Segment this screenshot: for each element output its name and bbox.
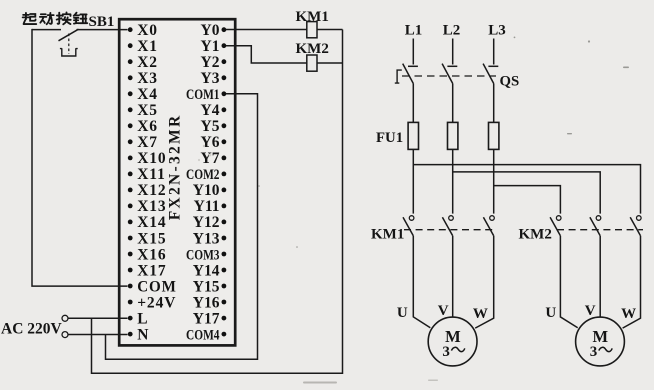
wire: M2 V lead (599, 236, 601, 317)
svg-text:Y2: Y2 (201, 54, 220, 71)
output pin Y1 (201, 38, 227, 55)
KM1 pole 2 terminal circle (449, 216, 454, 221)
terminal L (62, 315, 68, 321)
motor M2 tilde (599, 347, 612, 351)
svg-text:FU1: FU1 (376, 130, 403, 146)
pushbutton SB1 dashed actuator link (68, 34, 70, 55)
svg-text:U: U (545, 305, 556, 321)
input pin X6 (128, 118, 158, 135)
motor M2 body (576, 317, 625, 366)
input pin X12 (128, 182, 167, 199)
svg-text:Y6: Y6 (201, 134, 220, 151)
svg-text:3: 3 (442, 344, 450, 360)
svg-text:V: V (438, 303, 449, 319)
wire: M2 U lead (560, 236, 577, 328)
fuse FU1-2 (448, 122, 458, 149)
svg-text:Y11: Y11 (194, 198, 220, 215)
input pin X13 (128, 198, 167, 215)
svg-text:KM1: KM1 (296, 9, 329, 25)
wire: N terminal to PLC pin N (68, 334, 127, 336)
svg-text:KM1: KM1 (371, 227, 404, 243)
wire: coil return rail (342, 30, 344, 375)
svg-text:X15: X15 (137, 230, 166, 247)
QS pole 3 fixed contact bar (488, 65, 498, 67)
wire: QS pole 1 to fuse (412, 84, 414, 123)
input pin +24V (128, 294, 177, 311)
svg-text:SB1: SB1 (89, 14, 115, 30)
KM2 pole 3 terminal circle (637, 216, 642, 221)
QS handle bracket (395, 70, 402, 83)
wire: M1 V lead (452, 236, 454, 317)
svg-text:N: N (137, 326, 149, 343)
QS pole 3 blade (483, 64, 494, 84)
svg-text:X6: X6 (137, 118, 158, 135)
output pin Y11 (194, 198, 227, 215)
input pin N (128, 326, 149, 343)
svg-text:+24V: +24V (137, 294, 176, 311)
wire: phase2 branch to KM2 pole2 (453, 172, 601, 214)
input pin X11 (128, 166, 166, 183)
svg-text:V: V (585, 303, 596, 319)
output pin Y16 (193, 294, 227, 311)
input pin X17 (128, 262, 167, 279)
output pin Y17 (193, 310, 227, 327)
QS pole 1 blade (403, 64, 414, 84)
svg-text:Y3: Y3 (201, 70, 220, 87)
fuse FU1-1 (408, 122, 418, 149)
input pin X4 (128, 86, 158, 103)
svg-text:L2: L2 (443, 23, 461, 39)
output pin Y12 (193, 214, 227, 231)
svg-text:X10: X10 (137, 150, 166, 167)
motor M1 tilde (451, 347, 464, 351)
svg-text:X5: X5 (137, 102, 158, 119)
input pin X14 (128, 214, 167, 231)
svg-text:COM4: COM4 (186, 327, 220, 343)
input pin X0 (128, 22, 158, 39)
input pin X7 (128, 134, 158, 151)
svg-text:Y7: Y7 (201, 150, 220, 167)
output pin Y7 (201, 150, 227, 167)
output pin COM4 (186, 327, 226, 343)
svg-text:Y0: Y0 (201, 22, 220, 39)
input pin L (128, 310, 149, 327)
KM2 pole 1 terminal circle (556, 216, 561, 221)
output pin Y10 (193, 182, 227, 199)
svg-text:Y14: Y14 (193, 262, 220, 279)
svg-text:L1: L1 (405, 23, 423, 39)
svg-text:Y10: Y10 (193, 182, 220, 199)
svg-text:Y16: Y16 (193, 294, 220, 311)
svg-text:L: L (137, 310, 148, 327)
KM1 pole 2 blade (442, 217, 452, 236)
output pin Y0 (201, 22, 227, 39)
svg-text:Y15: Y15 (193, 278, 220, 295)
input pin X15 (128, 230, 167, 247)
svg-text:QS: QS (500, 74, 520, 90)
motor M1 body (428, 317, 477, 366)
terminal N (62, 332, 68, 338)
input pin X5 (128, 102, 158, 119)
input pin X10 (128, 150, 167, 167)
output pin Y6 (201, 134, 227, 151)
output pin Y13 (193, 230, 227, 247)
pushbutton SB1 blade (59, 29, 79, 41)
svg-text:KM2: KM2 (519, 227, 552, 243)
wire: Y1 to KM2 coil to rail (226, 46, 343, 63)
svg-text:Y1: Y1 (201, 38, 220, 55)
svg-text:Y12: Y12 (193, 214, 220, 231)
input pin COM (128, 278, 177, 295)
input pin X1 (128, 38, 158, 55)
wire: L branch to bottom rail (92, 318, 343, 373)
svg-text:X7: X7 (137, 134, 158, 151)
wire: L2 lead-in (452, 39, 454, 65)
wire: M1 U lead (413, 236, 430, 328)
wire: phase1 branch to KM2 pole3 (413, 165, 640, 214)
KM2 pole 2 blade (590, 217, 600, 236)
label: start button (Qi Dong An Niu) SB1 (23, 12, 88, 24)
wire: Y0 to KM1 coil to rail (226, 29, 343, 31)
svg-text:X14: X14 (137, 214, 166, 231)
svg-text:COM: COM (137, 278, 177, 295)
KM2 gang dashed link (557, 229, 643, 231)
input pin X3 (128, 70, 158, 87)
svg-text:Y13: Y13 (193, 230, 220, 247)
KM1 pole 3 blade (483, 217, 493, 236)
wire: fuse 1 to KM1 contact (412, 149, 414, 213)
svg-text:COM1: COM1 (186, 87, 220, 103)
KM1 gang dashed link (404, 229, 496, 231)
svg-text:Y5: Y5 (201, 118, 220, 135)
svg-text:X3: X3 (137, 70, 158, 87)
wire: M1 W lead (475, 236, 494, 328)
wire: N branch to COM1 (106, 94, 258, 360)
svg-text:X17: X17 (137, 262, 166, 279)
KM2 pole 1 blade (550, 217, 560, 236)
svg-text:3: 3 (590, 344, 598, 360)
svg-text:X4: X4 (137, 86, 158, 103)
svg-text:U: U (397, 305, 408, 321)
wire: QS pole 2 to fuse (452, 84, 454, 123)
wire: left rail down to COM (32, 29, 128, 286)
scan speckles (decorative) (198, 37, 629, 384)
wire: M2 W lead (623, 236, 641, 328)
output pin Y15 (193, 278, 227, 295)
svg-text:L3: L3 (488, 23, 506, 39)
svg-text:FX2N-32MR: FX2N-32MR (167, 114, 184, 221)
QS pole 2 blade (442, 64, 453, 84)
wire: QS pole 3 to fuse (493, 84, 495, 123)
QS pole 2 fixed contact bar (447, 65, 457, 67)
wire: fuse 2 to KM1 contact (452, 149, 454, 213)
output pin Y14 (193, 262, 227, 279)
output pin Y5 (201, 118, 227, 135)
svg-text:X11: X11 (137, 166, 166, 183)
output pin COM1 (186, 87, 226, 103)
wire: L3 lead-in (493, 39, 495, 65)
PLC module FX2N-32MR body (119, 19, 235, 345)
fuse FU1-3 (489, 122, 499, 149)
svg-text:Y17: Y17 (193, 310, 220, 327)
wire: L1 lead-in (412, 39, 414, 65)
output pin COM3 (186, 247, 226, 263)
svg-text:COM2: COM2 (186, 167, 220, 183)
svg-text:X12: X12 (137, 182, 166, 199)
svg-text:W: W (621, 306, 636, 322)
svg-text:AC 220V: AC 220V (1, 320, 63, 337)
QS gang dashed link (402, 75, 496, 77)
svg-text:X0: X0 (137, 22, 158, 39)
output pin Y4 (201, 102, 227, 119)
wire: phase3 branch to KM2 pole1 (494, 186, 561, 214)
output pin COM2 (186, 167, 226, 183)
KM1 pole 1 blade (403, 217, 413, 236)
svg-text:X13: X13 (137, 198, 166, 215)
wire: SB1 fixed contact to X0 (77, 29, 128, 31)
QS pole 1 fixed contact bar (408, 65, 418, 67)
svg-text:Y4: Y4 (201, 102, 220, 119)
contactor coil KM1 (307, 22, 317, 38)
output pin Y3 (201, 70, 227, 87)
svg-text:W: W (473, 306, 488, 322)
contactor coil KM2 (307, 55, 317, 71)
KM1 pole 1 terminal circle (409, 216, 414, 221)
svg-text:X16: X16 (137, 246, 166, 263)
svg-text:X2: X2 (137, 54, 158, 71)
KM2 pole 2 terminal circle (596, 216, 601, 221)
wire: fuse 3 to KM1 contact (493, 149, 495, 213)
wire: left rail to SB1 (32, 29, 61, 31)
svg-text:X1: X1 (137, 38, 158, 55)
svg-text:KM2: KM2 (296, 41, 329, 57)
input pin X16 (128, 246, 167, 263)
input pin X2 (128, 54, 158, 71)
svg-text:COM3: COM3 (186, 247, 220, 263)
KM1 pole 3 terminal circle (490, 216, 495, 221)
pushbutton SB1 cap (60, 48, 78, 56)
KM2 pole 3 blade (630, 217, 640, 236)
output pin Y2 (201, 54, 227, 71)
wire: L terminal to PLC pin L (68, 317, 127, 319)
